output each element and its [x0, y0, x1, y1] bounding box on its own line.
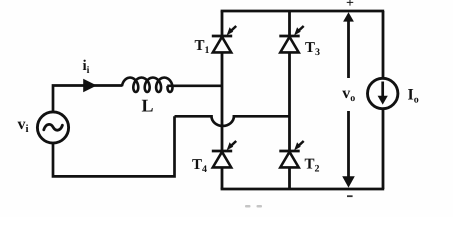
thyristor T2 cathode bar [279, 150, 299, 153]
vo arrow up head [343, 12, 354, 21]
vo arrow lower shaft [347, 111, 350, 178]
wire source bottom return [53, 116, 175, 176]
thyristor T4 gate lead [229, 141, 236, 148]
right leg wire lower [288, 167, 291, 189]
thyristor T1 triangle [213, 37, 231, 53]
right leg wire middle [288, 52, 291, 151]
thyristor T1 gate arrowhead [227, 27, 234, 35]
current source arrow shaft [381, 82, 384, 98]
thyristor T2 triangle [280, 152, 298, 168]
svg-text:L: L [142, 96, 154, 116]
AC source Vi circle [37, 112, 68, 143]
thyristor T4 triangle [213, 152, 231, 168]
wire coil to left leg [167, 84, 222, 87]
svg-text:+: + [346, 0, 354, 11]
left leg wire middle [221, 52, 224, 151]
current arrow i_i [83, 79, 97, 92]
right leg wire upper [288, 11, 291, 36]
thyristor T3 triangle [280, 37, 298, 53]
thyristor T4 cathode bar [212, 150, 232, 153]
thyristor T3 cathode bar [279, 35, 299, 38]
thyristor T2 gate lead [297, 141, 304, 148]
thyristor T2 gate arrowhead [294, 142, 301, 150]
thyristor T1 gate lead [229, 26, 236, 33]
thyristor T1 cathode bar [212, 35, 232, 38]
right branch wire top [382, 11, 385, 78]
minus sign [347, 195, 353, 197]
top rail [221, 10, 385, 13]
current source Io circle [368, 78, 398, 108]
right branch wire bottom [382, 109, 385, 189]
thyristor T3 gate lead [297, 26, 304, 33]
left leg wire upper [221, 11, 224, 36]
current source arrow head [378, 96, 388, 105]
inductor L coil [122, 78, 172, 92]
left leg wire lower [221, 167, 224, 189]
thyristor T4 gate arrowhead [227, 142, 234, 150]
bottom rail [221, 188, 385, 191]
wire source top to corner [53, 86, 123, 112]
wire cross to right leg with hop [175, 116, 290, 126]
thyristor T3 gate arrowhead [294, 27, 301, 35]
faint caption (a) remnants [245, 205, 251, 208]
AC source sine tilde [44, 124, 63, 130]
vo arrow down head [342, 176, 355, 187]
vo arrow upper shaft [347, 20, 350, 78]
